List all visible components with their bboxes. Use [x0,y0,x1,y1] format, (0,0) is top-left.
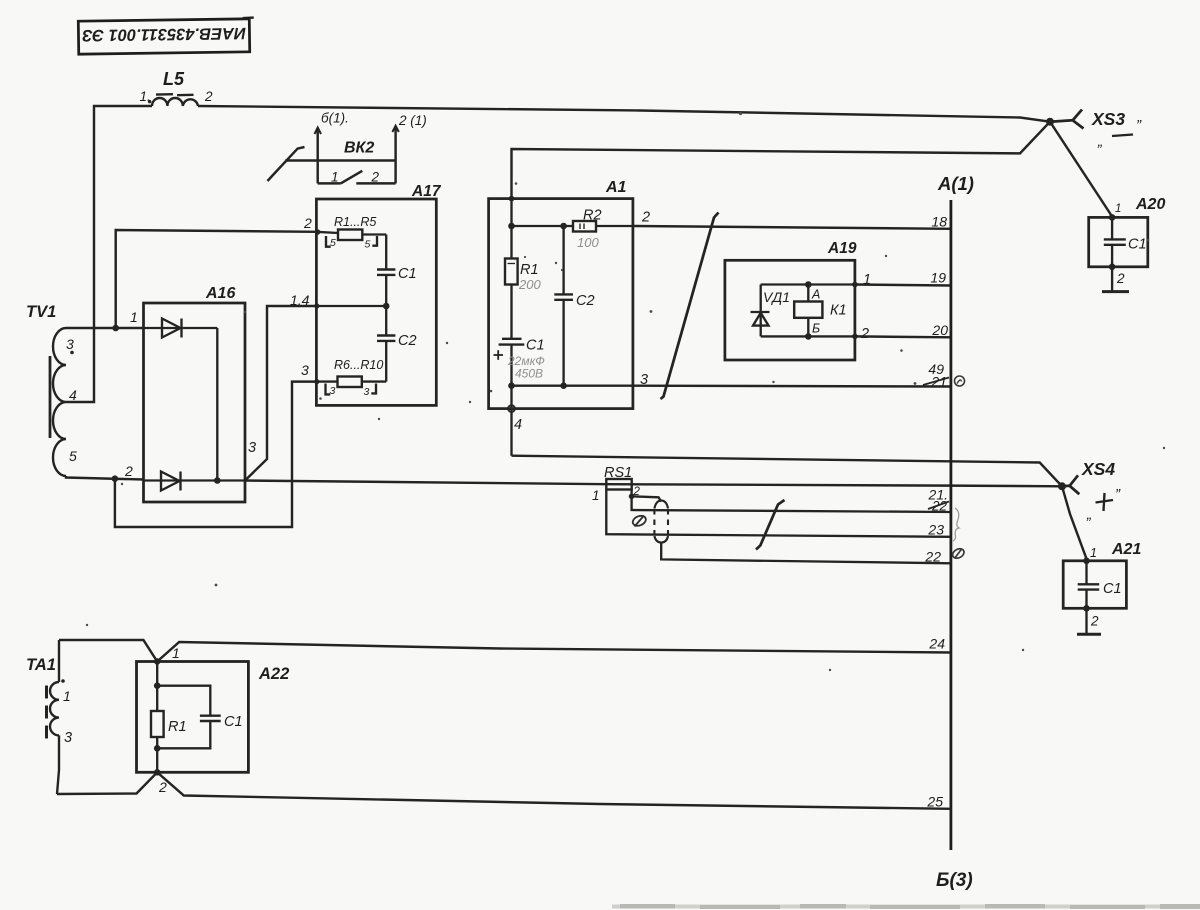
svg-text:5: 5 [330,237,336,249]
block A16 [144,303,246,502]
pin 4 exit of A1 [510,386,512,456]
wire A22 pin2 to bus tap 25 [157,772,951,809]
svg-text:1: 1 [130,309,138,325]
resistor R2 [573,221,596,232]
svg-text:24: 24 [928,636,945,652]
svg-text:2: 2 [860,326,869,342]
svg-text:2: 2 [158,779,167,795]
svg-text:3: 3 [248,440,256,456]
svg-text:А19: А19 [827,240,857,257]
wire A1 pin4 to XS4 [512,456,1063,487]
block A22 [137,662,249,773]
svg-text:А: А [811,288,820,302]
svg-text:20: 20 [931,322,948,338]
svg-text:TV1: TV1 [26,303,56,321]
svg-text:18: 18 [931,214,947,230]
svg-text:22: 22 [931,499,948,514]
wire A22 inner vertical [156,662,158,773]
svg-text:3: 3 [64,730,72,746]
inductor L5 [152,94,198,106]
svg-text:R1...R5: R1...R5 [334,215,376,229]
transformer TA1 [47,640,60,794]
wire RS1 pin2 to bus tap 21 [632,496,951,512]
switch BK2 [268,126,399,184]
diode VD-bottom of A16 [144,472,246,491]
svg-text:С2: С2 [398,333,417,349]
wire A19 bottom rail [761,335,855,337]
svg-text:19: 19 [930,270,946,286]
ground of A21 [1077,633,1101,636]
svg-text:2: 2 [124,463,133,479]
svg-text:RS1: RS1 [604,465,632,481]
wire TV1 pin3 to A16 pin1 node [66,327,144,329]
block A19 [725,260,855,360]
wire RS1 pin1 side to bus tap 23 [606,490,951,537]
node A1 top entry [509,196,515,202]
block A21 [1063,561,1126,609]
svg-text:R6...R10: R6...R10 [334,358,383,372]
svg-text:А21: А21 [1111,541,1141,558]
cable slash across A1 output wires [661,213,719,400]
svg-text:Б(3): Б(3) [936,870,973,891]
block A20 [1089,217,1148,266]
wire node up to A17 pin2 [116,230,317,328]
fuse RS1 [606,479,631,490]
svg-text:450В: 450В [515,367,543,381]
brace squiggle right of bus [953,508,959,541]
node C1/C2 junction [383,303,390,310]
wire TA1 pin3 to A22 pin2 [57,772,157,794]
diode VD1 [751,312,770,326]
node TV1-5 branch [112,475,119,482]
resistor R1 of A22 [151,711,164,737]
cable slash across RS1 wires [756,500,785,550]
wire A1 pin3 to bus tap 49 [633,384,951,387]
svg-text:А(1): А(1) [937,173,974,194]
svg-text:А20: А20 [1135,196,1165,213]
wire inner vertical of A16 [216,328,218,481]
svg-text:„: „ [1097,133,1103,150]
wire XS3 to A20 pin1 [1050,122,1112,217]
svg-text:4: 4 [69,387,77,403]
wire A1 top to XS3 via 2(1) level [512,122,1051,199]
capacitor C1 of A17 [377,235,395,307]
wire A1 pin2 to bus tap 18 [633,226,951,229]
resistor group R6...R10 [316,377,386,395]
capacitor C1 of A21 [1078,561,1100,634]
capacitor C2 of A17 [377,306,395,382]
svg-text:К1: К1 [830,303,847,319]
wire A19 pin2 to bus tap 20 [855,335,951,338]
svg-text:1: 1 [1115,203,1121,215]
revision mark near RS1 [631,514,647,528]
svg-text:С1: С1 [224,714,243,730]
wire holder bottom to bus tap 22 [661,543,951,564]
svg-text:1: 1 [63,688,71,704]
wire pin 1,4 inside A17 [316,305,386,307]
svg-text:200: 200 [518,277,541,292]
wire L5 to XS3 [198,106,1050,122]
stamp box with mirrored document number [78,18,254,55]
lamp holder (dashed capsule) [654,500,668,542]
svg-text:4: 4 [514,417,522,433]
wire A19 pin1 to bus tap 19 [855,285,951,286]
svg-text:С1: С1 [398,266,417,282]
diode VD-top of A16 [144,319,218,338]
svg-text:А16: А16 [205,285,235,302]
svg-text:2: 2 [1090,614,1099,629]
svg-text:25: 25 [926,794,943,810]
svg-text:2: 2 [303,215,312,231]
svg-text:L5: L5 [163,69,185,89]
connector XS4 [1058,482,1066,490]
svg-text:С2: С2 [576,293,595,309]
capacitor C1 of A1 (electrolytic) [494,339,525,386]
svg-text:1: 1 [331,170,339,185]
svg-text:VД1: VД1 [763,289,790,305]
resistor group R1...R5 [316,230,386,247]
svg-text:2: 2 [1116,271,1125,286]
svg-text:„: „ [1086,506,1092,523]
svg-text:23: 23 [927,522,944,538]
svg-text:3: 3 [301,362,309,378]
svg-text:2 (1): 2 (1) [398,113,427,128]
node RS1 pin2 [629,494,635,500]
svg-text:R2: R2 [583,208,602,224]
node TV1-3/A16-1 [112,325,119,332]
wire A16 pin3 to RS1 [245,481,1062,487]
svg-text:XS4: XS4 [1081,459,1115,479]
wire XS4 to A21 pin1 [1062,486,1087,559]
svg-text:5: 5 [69,448,77,464]
svg-text:2: 2 [204,89,213,104]
wire A1 internal bottom rail [512,385,633,387]
wire RS1 pin2 to holder top [632,490,662,502]
svg-text:1: 1 [592,488,600,503]
wire TA1 pin1 to A22 pin1 [59,640,157,662]
scan specks [86,112,1165,671]
svg-text:Б: Б [812,322,820,336]
wire A1 internal top rail [512,225,633,227]
wire node down-around to A17 pin3 [115,382,317,527]
svg-text:100: 100 [577,235,599,250]
svg-text:1,4: 1,4 [290,292,310,308]
block A17 [316,199,436,405]
svg-text:5: 5 [365,239,371,251]
capacitor C1 of A20 [1104,217,1126,290]
wire A1 internal left vertical [510,199,512,259]
bus A(1) [950,200,953,850]
svg-text:3: 3 [330,385,336,397]
svg-text:R1: R1 [520,262,539,278]
svg-text:С1: С1 [526,338,545,354]
capacitor C1 of A22 [200,716,221,721]
svg-text:2: 2 [371,170,380,185]
wire A16 pin3 up to A17 pin 1,4 [245,306,316,481]
relay K1 [794,302,822,318]
scan edge band bottom [612,904,1200,909]
svg-text:б(1).: б(1). [321,111,349,126]
block A1 [489,199,633,409]
svg-text:3: 3 [66,336,74,352]
wire R1 to C1 [510,285,512,339]
svg-text:2: 2 [641,210,650,226]
node A16 inner junction [214,477,221,484]
wire TV1 pin5 to A16 pin2 [66,476,144,480]
wire top-left corner to L5 [66,106,152,402]
svg-text:ИАЕВ.435311.001 ЭЗ: ИАЕВ.435311.001 ЭЗ [82,24,247,44]
connector XS3 [1046,118,1054,126]
transformer TV1 [50,328,66,476]
svg-text:TA1: TA1 [26,656,56,674]
svg-text:XS3: XS3 [1091,109,1125,129]
svg-text:С1: С1 [1128,237,1147,253]
speck near struck 21 [914,382,917,385]
capacitor C2 of A1 [554,226,573,386]
svg-text:ВК2: ВК2 [344,140,374,157]
svg-text:А1: А1 [605,179,627,196]
svg-text:22: 22 [924,549,941,565]
resistor R1 [505,259,518,285]
svg-text:С1: С1 [1103,581,1122,597]
svg-text:А22: А22 [258,665,289,683]
svg-text:R1: R1 [168,719,187,735]
wire A19 left vertical [760,285,762,337]
svg-text:А17: А17 [411,183,442,200]
svg-text:1: 1 [1090,546,1097,560]
wire A19 top rail [761,283,855,285]
wire A22 inner loop [157,686,210,716]
ground of A20 [1102,290,1129,293]
svg-text:3: 3 [364,386,370,398]
wire A22 pin1 to bus tap 24 [157,642,951,662]
